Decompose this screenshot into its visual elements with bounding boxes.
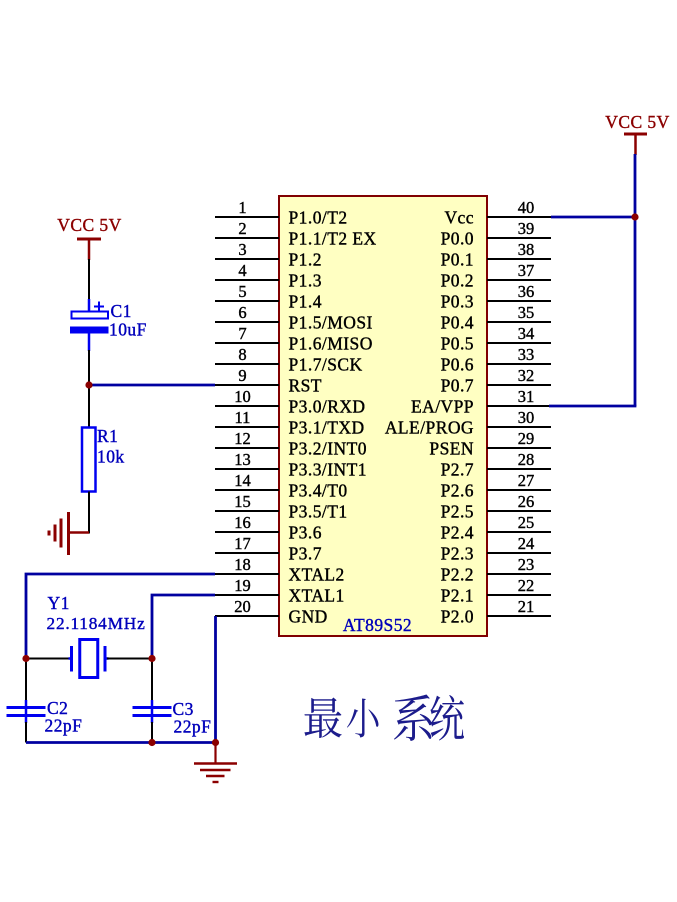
- svg-text:35: 35: [518, 303, 535, 322]
- svg-text:29: 29: [518, 429, 535, 448]
- wire: R1 to ground: [88, 492, 90, 534]
- svg-text:Y1: Y1: [48, 593, 70, 613]
- svg-text:P2.6: P2.6: [441, 480, 474, 500]
- svg-text:P3.6: P3.6: [289, 522, 322, 542]
- pin 21 (P2.0): [441, 597, 551, 626]
- svg-text:16: 16: [234, 513, 251, 532]
- wire: right junction down to C3: [151, 659, 153, 702]
- svg-text:P2.4: P2.4: [441, 522, 474, 542]
- svg-text:R1: R1: [97, 426, 118, 446]
- svg-text:17: 17: [234, 534, 251, 553]
- capacitor C2: [7, 700, 46, 723]
- pin 6 (P1.5/MOSI): [215, 303, 373, 332]
- pin 22 (P2.1): [441, 576, 551, 605]
- svg-text:26: 26: [518, 492, 535, 511]
- svg-text:P1.1/T2 EX: P1.1/T2 EX: [289, 228, 377, 248]
- svg-text:P3.0/RXD: P3.0/RXD: [289, 396, 366, 416]
- value 10uF: [109, 320, 147, 340]
- svg-text:9: 9: [238, 366, 246, 385]
- svg-text:P3.2/INT0: P3.2/INT0: [289, 438, 367, 458]
- svg-text:40: 40: [518, 198, 535, 217]
- svg-text:P0.0: P0.0: [441, 228, 474, 248]
- svg-text:38: 38: [518, 240, 535, 259]
- power flag VCC 5V (top right): [605, 112, 669, 155]
- pin 11 (P3.1/TXD): [215, 408, 365, 437]
- svg-text:14: 14: [234, 471, 251, 490]
- svg-text:7: 7: [238, 324, 246, 343]
- pin 32 (P0.7): [441, 366, 551, 395]
- ground (left, power ground): [49, 512, 89, 555]
- svg-text:10uF: 10uF: [109, 320, 147, 340]
- chip part name AT89S52: [343, 615, 412, 635]
- svg-text:P3.5/T1: P3.5/T1: [289, 501, 348, 521]
- pin 13 (P3.3/INT1): [215, 450, 367, 479]
- svg-text:33: 33: [518, 345, 535, 364]
- svg-text:P1.6/MISO: P1.6/MISO: [289, 333, 373, 353]
- svg-text:P2.2: P2.2: [441, 564, 474, 584]
- pin 37 (P0.2): [441, 261, 551, 290]
- pin 35 (P0.4): [441, 303, 551, 332]
- wire: XTAL1 pin19 left and down: [152, 595, 215, 659]
- svg-text:31: 31: [518, 387, 535, 406]
- pin 4 (P1.3): [215, 261, 322, 290]
- label C3: [173, 699, 194, 719]
- svg-text:23: 23: [518, 555, 535, 574]
- svg-text:P0.6: P0.6: [441, 354, 474, 374]
- pin 17 (P3.7): [215, 534, 322, 563]
- junction node C3/bottom rail: [148, 739, 155, 746]
- junction node at pin40/VCC rail: [631, 213, 638, 220]
- svg-text:P0.3: P0.3: [441, 291, 474, 311]
- wire: Y1 to right junction: [107, 658, 152, 660]
- svg-text:P2.3: P2.3: [441, 543, 474, 563]
- chip U1 AT89S52 (microcontroller) body: [279, 196, 487, 636]
- value 22pF (C3): [174, 717, 212, 737]
- pin 8 (P1.7/SCK): [215, 345, 363, 374]
- svg-text:5: 5: [238, 282, 246, 301]
- svg-text:11: 11: [235, 408, 251, 427]
- wire: C3 down to bottom rail: [151, 722, 153, 743]
- pin 12 (P3.2/INT0): [215, 429, 367, 458]
- svg-text:P0.5: P0.5: [441, 333, 474, 353]
- pin 28 (P2.7): [441, 450, 551, 479]
- wire: RST node to pin 9: [89, 384, 215, 387]
- svg-text:RST: RST: [289, 375, 322, 395]
- svg-text:32: 32: [518, 366, 535, 385]
- svg-text:22.1184MHz: 22.1184MHz: [47, 614, 146, 633]
- svg-text:34: 34: [518, 324, 535, 343]
- crystal Y1: [69, 640, 109, 678]
- svg-text:EA/VPP: EA/VPP: [411, 396, 474, 416]
- label Y1: [48, 593, 70, 613]
- pin 25 (P2.4): [441, 513, 551, 542]
- pin 29 (PSEN): [429, 429, 551, 458]
- svg-text:37: 37: [518, 261, 535, 280]
- pin 30 (ALE/PROG): [385, 408, 551, 437]
- pin 33 (P0.6): [441, 345, 551, 374]
- svg-text:15: 15: [234, 492, 251, 511]
- pin 3 (P1.2): [215, 240, 322, 269]
- pin 5 (P1.4): [215, 282, 322, 311]
- svg-text:P2.5: P2.5: [441, 501, 474, 521]
- junction node left of Y1: [22, 655, 29, 662]
- pin 23 (P2.2): [441, 555, 551, 584]
- svg-text:10: 10: [234, 387, 251, 406]
- svg-text:28: 28: [518, 450, 535, 469]
- svg-text:XTAL2: XTAL2: [289, 564, 345, 584]
- pin 14 (P3.4/T0): [215, 471, 348, 500]
- pin 9 (RST): [215, 366, 322, 395]
- wire: GND pin20 down to ground node: [214, 616, 217, 743]
- svg-text:13: 13: [234, 450, 251, 469]
- title text: 最小系统 (minimal system): [304, 694, 464, 740]
- svg-text:27: 27: [518, 471, 535, 490]
- svg-text:6: 6: [238, 303, 246, 322]
- svg-text:GND: GND: [289, 606, 328, 626]
- label C1: [111, 301, 132, 321]
- svg-text:10k: 10k: [97, 447, 125, 467]
- svg-text:P0.4: P0.4: [441, 312, 474, 332]
- svg-text:P3.7: P3.7: [289, 543, 322, 563]
- capacitor C3: [133, 700, 172, 723]
- wire: XTAL2 pin18 left and down: [26, 574, 215, 659]
- pin 31 (EA/VPP): [411, 387, 551, 416]
- pin 20 (GND): [215, 597, 328, 626]
- wire: C2 down to bottom rail: [25, 722, 27, 743]
- value 10k: [97, 447, 125, 467]
- wire: left junction to Y1: [26, 658, 70, 660]
- svg-text:39: 39: [518, 219, 535, 238]
- pin 1 (P1.0/T2): [215, 198, 348, 227]
- svg-text:P3.3/INT1: P3.3/INT1: [289, 459, 367, 479]
- pin 10 (P3.0/RXD): [215, 387, 366, 416]
- svg-text:AT89S52: AT89S52: [343, 615, 412, 635]
- pin 7 (P1.6/MISO): [215, 324, 373, 353]
- pin 24 (P2.3): [441, 534, 551, 563]
- label C2: [47, 698, 68, 718]
- wire: VCC to C1: [88, 259, 90, 300]
- svg-text:P0.1: P0.1: [441, 249, 474, 269]
- svg-text:24: 24: [518, 534, 535, 553]
- svg-text:P1.4: P1.4: [289, 291, 322, 311]
- pin 40 (Vcc): [444, 198, 551, 227]
- label R1: [97, 426, 118, 446]
- power flag VCC 5V (left): [57, 215, 121, 260]
- junction node GND/bottom rail: [212, 739, 219, 746]
- pin 19 (XTAL1): [215, 576, 345, 605]
- pin 26 (P2.5): [441, 492, 551, 521]
- pin 16 (P3.6): [215, 513, 322, 542]
- svg-text:P0.2: P0.2: [441, 270, 474, 290]
- pin 34 (P0.5): [441, 324, 551, 353]
- svg-text:21: 21: [518, 597, 535, 616]
- svg-text:XTAL1: XTAL1: [289, 585, 345, 605]
- svg-text:4: 4: [238, 261, 246, 280]
- svg-text:12: 12: [234, 429, 251, 448]
- svg-text:P3.1/TXD: P3.1/TXD: [289, 417, 365, 437]
- svg-text:Vcc: Vcc: [444, 207, 474, 227]
- svg-text:P2.0: P2.0: [441, 606, 474, 626]
- svg-text:30: 30: [518, 408, 535, 427]
- svg-text:2: 2: [238, 219, 246, 238]
- svg-text:P1.0/T2: P1.0/T2: [289, 207, 348, 227]
- wire: pin 31 EA/VPP to rail: [549, 405, 636, 408]
- wire: left junction down to C2: [25, 659, 27, 702]
- svg-text:P0.7: P0.7: [441, 375, 474, 395]
- svg-text:8: 8: [238, 345, 246, 364]
- value 22pF (C2): [45, 716, 83, 736]
- svg-text:3: 3: [238, 240, 246, 259]
- svg-text:P1.3: P1.3: [289, 270, 322, 290]
- svg-text:PSEN: PSEN: [429, 438, 474, 458]
- wire: C1 to RST node: [88, 350, 90, 428]
- svg-text:20: 20: [234, 597, 251, 616]
- wire: VCC rail down to EA/VPP: [634, 154, 637, 406]
- svg-text:P1.7/SCK: P1.7/SCK: [289, 354, 363, 374]
- wire: pin 40 Vcc to rail: [551, 216, 636, 219]
- svg-text:18: 18: [234, 555, 251, 574]
- pin 38 (P0.1): [441, 240, 551, 269]
- junction node right of Y1: [148, 655, 155, 662]
- svg-text:36: 36: [518, 282, 535, 301]
- svg-text:C1: C1: [111, 301, 132, 321]
- pin 15 (P3.5/T1): [215, 492, 348, 521]
- svg-text:VCC 5V: VCC 5V: [605, 112, 669, 132]
- junction node RST: [85, 381, 92, 388]
- svg-text:P1.5/MOSI: P1.5/MOSI: [289, 312, 373, 332]
- svg-text:ALE/PROG: ALE/PROG: [385, 417, 474, 437]
- value 22.1184MHz: [47, 614, 146, 633]
- resistor R1: [82, 428, 96, 492]
- svg-text:19: 19: [234, 576, 251, 595]
- svg-text:25: 25: [518, 513, 535, 532]
- svg-text:1: 1: [238, 198, 246, 217]
- svg-text:P1.2: P1.2: [289, 249, 322, 269]
- wire: bottom rail C2-C3-GND: [26, 741, 216, 744]
- svg-text:22pF: 22pF: [174, 717, 212, 737]
- svg-text:22: 22: [518, 576, 535, 595]
- svg-text:22pF: 22pF: [45, 716, 83, 736]
- svg-text:VCC 5V: VCC 5V: [57, 215, 121, 235]
- pin 39 (P0.0): [441, 219, 551, 248]
- ground (bottom, earth): [194, 743, 237, 783]
- pin 2 (P1.1/T2 EX): [215, 219, 377, 248]
- svg-text:P3.4/T0: P3.4/T0: [289, 480, 348, 500]
- pin 27 (P2.6): [441, 471, 551, 500]
- svg-text:P2.7: P2.7: [441, 459, 474, 479]
- svg-text:P2.1: P2.1: [441, 585, 474, 605]
- pin 18 (XTAL2): [215, 555, 345, 584]
- pin 36 (P0.3): [441, 282, 551, 311]
- capacitor C1 (polarized): [70, 299, 109, 351]
